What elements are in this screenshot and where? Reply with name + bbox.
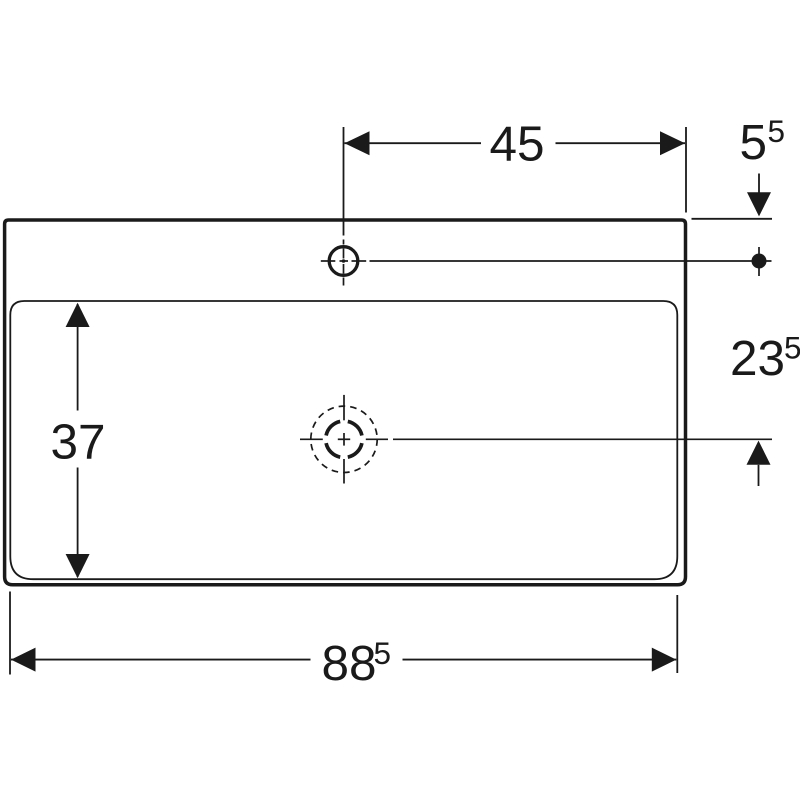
dimension 37 label [50,415,105,470]
dimension 37 line upper segment [77,304,79,577]
dimension 45 line [345,142,686,144]
dimension 88.5 line [11,659,676,661]
dimension 45 label [489,117,544,172]
dimension 5.5 extension line from rim top [692,218,773,220]
dimension 88.5 label [322,635,392,691]
faucet leader terminator dot [752,247,767,276]
svg-text:5: 5 [740,115,768,170]
svg-text:23: 23 [730,331,785,386]
svg-text:37: 37 [50,415,105,470]
dimension 45 left extension line (faucet axis) [343,127,345,236]
dimension 37 down arrow [66,554,90,578]
svg-text:5: 5 [374,635,392,671]
drain vertical centerline [343,395,345,484]
drain horizontal centerline [300,438,388,440]
dimension 45 left arrow [345,131,370,155]
dimension 45 right arrow [660,131,685,155]
dimension 5.5 down arrow [747,192,771,216]
basin bowl inner outline [10,301,677,579]
dimension 45 right extension line [685,127,687,213]
drain inner circle thick arcs [326,421,362,457]
washbasin outer rim [5,220,686,585]
svg-text:88: 88 [322,636,377,691]
svg-text:5: 5 [768,113,786,149]
dimension 5.5 label [740,113,786,170]
faucet vertical centerline dashes [343,240,345,286]
dimension 37 up arrow [66,303,90,327]
drain outer dashed circle [311,406,377,472]
dimension 23.5 arrow tail [758,465,760,486]
dimension 88.5 left arrow [11,648,36,672]
dimension 5.5 arrow tail [758,174,760,195]
faucet horizontal centerline dashes [321,260,366,262]
faucet leader line to right [370,260,772,262]
dimension 23.5 up arrow [747,441,771,465]
faucet hole circle [329,247,358,276]
drain leader line to right [393,438,772,440]
dimension 88.5 right arrow [652,648,677,672]
svg-text:45: 45 [489,117,544,172]
dimension 88.5 left extension line [9,592,11,675]
dimension 23.5 label [730,330,800,387]
dimension 88.5 right extension line [676,595,678,673]
svg-text:5: 5 [784,330,800,366]
